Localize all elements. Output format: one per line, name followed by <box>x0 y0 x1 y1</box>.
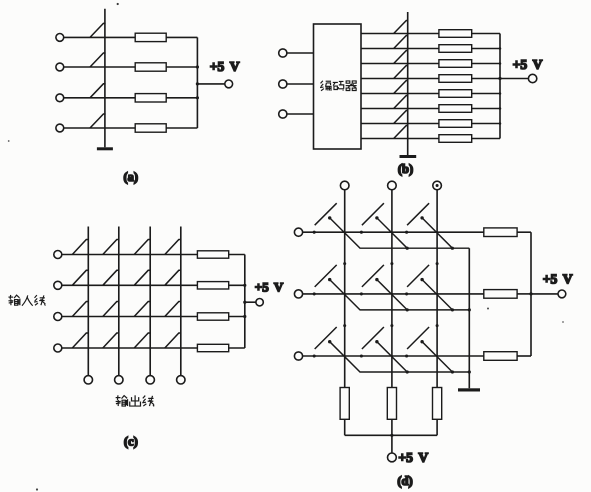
terminal dot d3 <box>436 184 439 187</box>
wire row d1 <box>303 231 484 233</box>
node pivot d33 <box>405 354 408 357</box>
ground b <box>400 155 417 158</box>
wire column d1 <box>344 190 346 388</box>
label 输入线 (input lines) <box>8 295 45 306</box>
switch S43c <box>134 333 150 348</box>
terminal input b3 <box>279 110 287 118</box>
node contact d23 <box>420 278 423 281</box>
switch S3a <box>90 84 106 98</box>
ground a <box>97 147 113 150</box>
switch S1b <box>394 21 408 34</box>
switch arm d31 <box>315 327 337 349</box>
wire row c4 <box>62 347 198 349</box>
wire row c4 right <box>229 347 245 349</box>
resistor R2b <box>439 45 472 53</box>
node contact d11 <box>328 216 331 219</box>
terminal row c4 <box>54 344 62 352</box>
terminal +5V b <box>528 74 536 82</box>
terminal row d2 <box>294 290 302 298</box>
junction collector d22 <box>406 308 409 311</box>
terminal input a2 <box>56 63 64 71</box>
terminal +5V c <box>256 299 263 306</box>
wire row a4 left <box>64 127 136 129</box>
wire contact d32 <box>377 342 407 372</box>
switch S4a <box>90 114 106 128</box>
junction d tap/bus <box>529 292 532 295</box>
resistor R8b <box>439 135 472 143</box>
wire row c3 right <box>229 316 245 318</box>
speck <box>562 321 564 323</box>
wire bottom bus d <box>345 434 437 436</box>
wire +5V bus c <box>244 255 246 349</box>
encoder box U1 <box>314 24 362 149</box>
wire row b6 left <box>361 108 439 110</box>
wire row b3 left <box>361 63 439 65</box>
svg-text:(c): (c) <box>124 435 138 449</box>
junction collector d23 <box>451 308 454 311</box>
node contact d31 <box>328 340 331 343</box>
switch arm d11 <box>315 203 337 225</box>
switch arm d21 <box>315 265 337 287</box>
switch arm d13 <box>407 203 429 225</box>
switch S3b <box>394 51 408 64</box>
terminal input b2 <box>279 80 287 88</box>
wire column c3 <box>149 227 151 376</box>
switch S42c <box>103 333 119 348</box>
resistor Rc1d <box>340 388 349 420</box>
resistor R4c <box>197 344 228 351</box>
terminal row c3 <box>54 313 62 321</box>
wire row a1 right <box>166 36 197 38</box>
resistor R3a <box>135 94 166 102</box>
resistor R2c <box>197 282 228 289</box>
junction column mid d <box>343 262 346 265</box>
junction b bus <box>499 107 502 110</box>
node contact d33 <box>420 340 423 343</box>
switch S33c <box>134 302 150 317</box>
wire row b5 right <box>472 93 500 95</box>
svg-text:+5 V: +5 V <box>255 280 284 295</box>
wire input b1 <box>287 52 314 54</box>
switch S23c <box>134 270 150 285</box>
terminal +5V a <box>225 80 233 88</box>
node contact d13 <box>420 216 423 219</box>
junction b bus <box>499 92 502 95</box>
wire row b4 right <box>472 78 500 80</box>
wire +5V tap d right <box>531 293 558 295</box>
junction column mid d <box>436 262 439 265</box>
node pivot d21 <box>313 292 316 295</box>
wire row d2 <box>303 293 484 295</box>
switch S12c <box>103 240 119 255</box>
junction a row3/bus <box>196 96 199 99</box>
wire row a2 left <box>64 66 136 68</box>
resistor R1c <box>197 251 228 258</box>
wire row a3 left <box>64 97 136 99</box>
terminal column c3 <box>146 376 154 384</box>
terminal input b1 <box>279 49 287 57</box>
switch S4b <box>394 66 408 79</box>
wire row a3 right <box>166 97 197 99</box>
terminal row d3 <box>294 352 302 360</box>
junction collector d12 <box>406 247 409 250</box>
resistor Rc2d <box>387 388 396 420</box>
junction a row2/bus <box>196 65 199 68</box>
switch S14c <box>165 240 181 255</box>
wire column c2 <box>118 227 120 376</box>
wire row c2 <box>62 284 198 286</box>
wire column d3 <box>436 190 438 388</box>
wire row c3 <box>62 316 198 318</box>
junction column mid d <box>390 324 393 327</box>
terminal input a4 <box>56 124 64 132</box>
switch arm d22 <box>362 265 384 287</box>
junction column mid d <box>436 324 439 327</box>
wire resistor/bus d <box>517 293 531 295</box>
resistor R7b <box>439 120 472 128</box>
wire row b3 right <box>472 63 500 65</box>
terminal input a3 <box>56 94 64 102</box>
resistor R4b <box>439 75 472 83</box>
junction c row3/bus <box>243 315 246 318</box>
wire row b7 right <box>472 123 500 125</box>
junction a tap/bus <box>196 82 199 85</box>
terminal column d2 <box>388 181 397 190</box>
wire row a4 right <box>166 127 197 129</box>
speck <box>487 308 489 310</box>
node pivot d13 <box>405 231 408 234</box>
switch arm d12 <box>362 203 384 225</box>
terminal column c1 <box>84 376 92 384</box>
switch S41c <box>72 333 88 348</box>
node contact d12 <box>375 216 378 219</box>
junction collector d13 <box>451 247 454 250</box>
terminal column d1 <box>340 181 349 190</box>
switch arm d23 <box>407 265 429 287</box>
svg-text:(b): (b) <box>398 162 413 176</box>
wire contact/collector d21 <box>330 280 470 310</box>
wire +5V bus d right <box>530 232 532 356</box>
wire contact d13 <box>422 218 452 248</box>
wire row b7 left <box>361 123 439 125</box>
resistor R3c <box>197 313 228 320</box>
terminal +5V d right <box>558 290 566 298</box>
wire contact d12 <box>377 218 407 248</box>
resistor R2d <box>484 290 517 299</box>
switch S6b <box>394 96 408 109</box>
switch S5b <box>394 81 408 94</box>
wire column c4 <box>180 227 182 376</box>
resistor R1b <box>439 30 472 38</box>
label 编码器 (encoder) <box>320 81 357 91</box>
node pivot d31 <box>313 354 316 357</box>
junction collector d33 <box>451 370 454 373</box>
wire resistor/bus d <box>517 231 531 233</box>
junction b bus <box>499 47 502 50</box>
wire resistor bottom d3 <box>436 419 438 435</box>
node pivot d22 <box>360 292 363 295</box>
switch S11c <box>72 240 88 255</box>
node pivot d32 <box>360 354 363 357</box>
junction b bus <box>499 77 502 80</box>
wire row b2 left <box>361 48 439 50</box>
wire +5V bus a <box>196 37 198 128</box>
resistor R1a <box>135 33 166 41</box>
node pivot d12 <box>360 231 363 234</box>
switch S34c <box>165 302 181 317</box>
wire row b5 left <box>361 93 439 95</box>
wire row b1 left <box>361 33 439 35</box>
switch S32c <box>103 302 119 317</box>
switch arm d33 <box>407 327 429 349</box>
wire +5V stem d <box>391 435 393 453</box>
switch S24c <box>165 270 181 285</box>
junction collector row2 d <box>468 308 471 311</box>
wire common column a <box>104 9 106 148</box>
node pivot d23 <box>405 292 408 295</box>
wire row b6 right <box>472 108 500 110</box>
svg-text:+5 V: +5 V <box>210 59 240 74</box>
junction b bus <box>499 122 502 125</box>
wire row a1 left <box>64 36 136 38</box>
label 输出线 (output lines) <box>116 395 155 406</box>
node contact d32 <box>375 340 378 343</box>
switch S31c <box>72 302 88 317</box>
terminal +5V d bottom <box>388 453 397 462</box>
junction collector row3 d <box>468 370 471 373</box>
node contact d21 <box>328 278 331 281</box>
svg-text:+5 V: +5 V <box>398 450 428 465</box>
switch S2b <box>394 36 408 49</box>
terminal column c2 <box>115 376 123 384</box>
junction bottom bus d <box>390 434 393 437</box>
switch S8b <box>394 126 408 139</box>
terminal input a1 <box>56 34 64 42</box>
wire +5V tap b <box>500 78 528 80</box>
junction b tap/bus <box>498 77 501 80</box>
svg-text:+5 V: +5 V <box>543 271 573 286</box>
junction c tap/bus <box>243 301 246 304</box>
junction column mid d <box>343 324 346 327</box>
terminal row d1 <box>294 228 302 236</box>
svg-text:(a): (a) <box>124 170 139 184</box>
resistor R3d <box>484 352 517 361</box>
wire row c2 right <box>229 284 245 286</box>
switch S44c <box>165 333 181 348</box>
wire row a2 right <box>166 66 197 68</box>
speck <box>8 140 10 142</box>
wire resistor bottom d2 <box>391 419 393 435</box>
wire row d3 <box>303 355 484 357</box>
wire column d2 <box>391 190 393 388</box>
switch arm d32 <box>362 327 384 349</box>
wire collector vertical d <box>468 248 470 388</box>
wire contact d22 <box>377 280 407 310</box>
wire contact d23 <box>422 280 452 310</box>
wire row b2 right <box>472 48 500 50</box>
ground d <box>458 388 480 391</box>
speck <box>36 488 38 490</box>
wire input b3 <box>287 113 314 115</box>
wire resistor/bus d <box>517 355 531 357</box>
resistor R6b <box>439 105 472 113</box>
speck <box>117 3 119 5</box>
switch S7b <box>394 111 408 124</box>
switch S2a <box>90 53 106 67</box>
junction column mid d <box>390 262 393 265</box>
resistor R5b <box>439 90 472 98</box>
wire input b2 <box>287 83 314 85</box>
svg-text:(d): (d) <box>397 474 412 488</box>
wire +5V tap a <box>197 83 224 85</box>
junction collector d32 <box>406 370 409 373</box>
switch S21c <box>72 270 88 285</box>
terminal row c2 <box>54 281 62 289</box>
wire resistor bottom d1 <box>344 419 346 435</box>
terminal column d3 <box>433 181 442 190</box>
wire contact/collector d31 <box>330 342 470 372</box>
wire row b8 left <box>361 138 439 140</box>
wire row c1 <box>62 254 198 256</box>
svg-text:+5 V: +5 V <box>513 57 543 72</box>
wire row b8 right <box>472 138 500 140</box>
terminal row c1 <box>54 251 62 259</box>
terminal column c4 <box>177 376 185 384</box>
resistor Rc3d <box>433 388 442 420</box>
switch S1a <box>90 23 106 37</box>
resistor R3b <box>439 60 472 68</box>
wire +5V bus b <box>499 34 501 139</box>
node contact d22 <box>375 278 378 281</box>
wire contact/collector d11 <box>330 218 470 248</box>
node pivot d11 <box>313 231 316 234</box>
resistor R1d <box>484 228 517 237</box>
wire column c1 <box>87 227 89 376</box>
switch S13c <box>134 240 150 255</box>
wire common column b <box>407 12 409 155</box>
resistor R4a <box>135 124 166 132</box>
wire row c1 right <box>229 254 245 256</box>
wire contact d33 <box>422 342 452 372</box>
junction b bus <box>499 62 502 65</box>
resistor R2a <box>135 63 166 71</box>
switch S22c <box>103 270 119 285</box>
junction c row2/bus <box>243 284 246 287</box>
wire +5V tap c <box>245 301 256 303</box>
wire row b4 left <box>361 78 439 80</box>
wire row b1 right <box>472 33 500 35</box>
